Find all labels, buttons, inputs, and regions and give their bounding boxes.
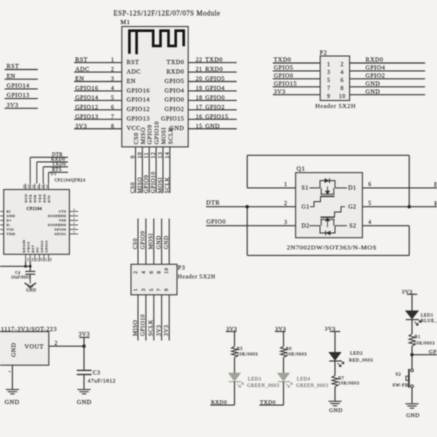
- svg-text:RXD0: RXD0: [366, 57, 384, 64]
- svg-text:10: 10: [339, 94, 346, 100]
- junction C4 b: [29, 265, 32, 268]
- wire net EN left: [5, 74, 38, 80]
- antenna: [129, 31, 183, 55]
- wire Q1 pin 1: [247, 182, 295, 188]
- wire U2 VOUT: [49, 341, 84, 347]
- wire M1 pin 10 MISO: [137, 127, 146, 193]
- ground LED2: [328, 401, 342, 414]
- wire net 3V3 left: [5, 103, 38, 109]
- wire P2 pin 10 GND: [339, 88, 425, 99]
- wire Q1 pin 5 to RST: [362, 201, 437, 208]
- svg-text:TXD0: TXD0: [274, 57, 292, 64]
- svg-text:S2: S2: [349, 223, 356, 229]
- svg-text:18: 18: [50, 257, 53, 261]
- svg-text:GPIO3: GPIO3: [45, 240, 49, 252]
- svg-text:7: 7: [111, 114, 114, 120]
- svg-text:R1: R1: [415, 334, 421, 339]
- svg-text:RXD0: RXD0: [166, 68, 184, 75]
- svg-text:RTS: RTS: [47, 195, 51, 203]
- wire M1 pin 6 GPIO12: [74, 104, 150, 113]
- module M1 body: [122, 27, 188, 147]
- wire VBUS rail: [0, 262, 30, 271]
- wire M1 pin 16 GPIO15: [161, 113, 237, 122]
- svg-text:D+: D+: [7, 219, 12, 223]
- svg-text:10: 10: [137, 152, 143, 159]
- wire M1 pin 5 GPIO14: [74, 94, 150, 103]
- svg-text:4: 4: [368, 220, 371, 226]
- svg-text:TXD0: TXD0: [205, 57, 223, 64]
- svg-text:16: 16: [196, 114, 203, 120]
- svg-text:CTS: CTS: [59, 210, 67, 214]
- wire net RST left: [5, 64, 38, 70]
- wire M1 pin 3 EN: [74, 76, 136, 85]
- power flag 3V3 R5: [226, 327, 237, 333]
- svg-text:G1: G1: [302, 204, 310, 210]
- wire M1 pin 11 GPIO9: [144, 125, 153, 194]
- svg-text:GPIO15: GPIO15: [205, 113, 228, 120]
- svg-text:18: 18: [196, 95, 203, 101]
- svg-text:2: 2: [133, 271, 139, 274]
- svg-text:GPIO12: GPIO12: [75, 104, 98, 111]
- svg-text:14: 14: [31, 257, 34, 261]
- connector P2: [315, 50, 356, 110]
- svg-text:GPIO2: GPIO2: [40, 240, 44, 252]
- svg-text:SCLK: SCLK: [149, 319, 155, 336]
- svg-text:RXD0: RXD0: [211, 400, 227, 406]
- svg-text:2: 2: [341, 62, 344, 68]
- svg-text:D-: D-: [7, 223, 12, 227]
- svg-text:2: 2: [284, 201, 287, 207]
- svg-text:8: 8: [157, 271, 163, 274]
- svg-text:GND: GND: [5, 399, 20, 406]
- svg-text:22: 22: [32, 184, 35, 188]
- wire M1 pin 4 GPIO16: [74, 85, 150, 94]
- svg-text:8: 8: [111, 124, 114, 130]
- svg-text:15: 15: [196, 124, 203, 130]
- ground C3: [77, 390, 92, 406]
- svg-text:VDD: VDD: [7, 232, 16, 236]
- Q1 pin names: [302, 186, 357, 230]
- svg-text:11: 11: [144, 152, 150, 158]
- svg-text:GPIO0: GPIO0: [274, 73, 294, 80]
- svg-text:GPIO13: GPIO13: [75, 113, 98, 120]
- capacitor C4: [11, 271, 35, 284]
- svg-text:GPIO13: GPIO13: [127, 116, 150, 123]
- power flag 3V3 R6: [275, 327, 286, 333]
- U1 bottom pins: [22, 240, 53, 262]
- wire net GPIO13 left: [5, 93, 38, 99]
- wire M1 pin 14 SCLK: [165, 127, 174, 194]
- wire P2 pin 6 GPIO2: [341, 73, 426, 84]
- wire M1 pin 21 RXD0: [166, 66, 236, 75]
- svg-text:3: 3: [327, 70, 330, 76]
- svg-text:GND: GND: [366, 80, 381, 87]
- svg-text:GPIO0: GPIO0: [206, 219, 226, 226]
- LED2 red: [329, 332, 374, 367]
- svg-text:47uF/1812: 47uF/1812: [88, 379, 116, 385]
- svg-text:GND: GND: [7, 214, 16, 218]
- wire P2 pin 1 TXD0: [273, 57, 331, 68]
- svg-text:15: 15: [36, 257, 39, 261]
- svg-text:LED2: LED2: [350, 351, 363, 356]
- junction C4 a: [24, 265, 27, 268]
- svg-text:19: 19: [46, 184, 49, 188]
- mosfet Q1a internals: [310, 178, 348, 207]
- svg-text:RST: RST: [31, 244, 35, 252]
- svg-text:20: 20: [41, 184, 44, 188]
- svg-text:EN: EN: [75, 76, 84, 83]
- wire P3 top MOSI: [149, 219, 155, 265]
- svg-text:GREEN_0603: GREEN_0603: [247, 384, 280, 389]
- wire M1 pin 15 GND: [170, 123, 237, 132]
- wire M1 pin 12 GPIO10: [151, 121, 160, 193]
- svg-text:Header 5X2H: Header 5X2H: [315, 103, 356, 110]
- svg-text:2: 2: [111, 67, 114, 73]
- wire P3 top GND: [156, 219, 162, 265]
- wire M1 pin 20 GPIO5: [165, 76, 237, 85]
- svg-text:10K/0603: 10K/0603: [237, 351, 259, 356]
- svg-text:5: 5: [111, 95, 114, 101]
- wire P3 bottom SCLK: [149, 295, 155, 341]
- resistor R6: [281, 332, 308, 358]
- svg-text:3V3: 3V3: [274, 88, 286, 95]
- svg-text:S1: S1: [302, 186, 309, 192]
- svg-text:8: 8: [341, 86, 344, 92]
- svg-text:GPIO9: GPIO9: [144, 175, 150, 194]
- resistor R7: [332, 361, 360, 401]
- svg-text:GPIO14: GPIO14: [75, 94, 98, 101]
- svg-text:S2: S2: [396, 372, 402, 377]
- wire P3 bottom MISO: [133, 295, 139, 341]
- wire P3 bottom GPIO10: [141, 295, 147, 341]
- svg-text:13: 13: [27, 257, 30, 261]
- svg-text:19: 19: [196, 86, 203, 92]
- svg-text:3V3: 3V3: [156, 325, 162, 336]
- wire U2 GND pin: [9, 365, 13, 389]
- svg-text:RST: RST: [7, 64, 20, 70]
- svg-text:Q1: Q1: [297, 165, 306, 172]
- svg-text:CP2104: CP2104: [27, 207, 43, 211]
- LED3 (grey): [228, 358, 279, 390]
- svg-text:4: 4: [111, 86, 114, 92]
- svg-text:GPIO15: GPIO15: [161, 116, 184, 123]
- svg-text:G2: G2: [348, 204, 356, 210]
- junction DTR: [246, 205, 249, 208]
- svg-text:SUSPEND: SUSPEND: [48, 223, 67, 227]
- wire P3 top GPIO9: [141, 219, 147, 265]
- svg-text:GND: GND: [77, 399, 92, 406]
- svg-text:GND: GND: [366, 88, 381, 95]
- LED1 blue: [405, 294, 437, 325]
- module M1 refdes: [121, 19, 131, 26]
- svg-text:CS0: CS0: [131, 182, 137, 193]
- wire P3 bottom 3V3: [164, 295, 170, 341]
- svg-text:GPIO0: GPIO0: [54, 228, 66, 232]
- ground U2: [5, 390, 20, 406]
- svg-text:7: 7: [327, 86, 330, 92]
- svg-text:3V3: 3V3: [164, 325, 170, 336]
- svg-text:C4: C4: [15, 271, 20, 275]
- module M1 title: [114, 11, 221, 18]
- svg-text:5: 5: [149, 288, 155, 291]
- svg-text:GPIO9: GPIO9: [141, 231, 147, 250]
- mosfet Q1b internals: [310, 207, 348, 236]
- wire P2 pin 3 GPIO5: [273, 65, 331, 76]
- svg-text:3V3: 3V3: [7, 103, 19, 109]
- svg-text:GPIO1: GPIO1: [54, 232, 66, 236]
- svg-text:3: 3: [141, 288, 147, 291]
- LED4 (grey): [277, 358, 328, 389]
- wire M1 pin 1 RST: [74, 57, 139, 66]
- svg-text:6: 6: [111, 105, 114, 111]
- svg-text:GPIO4: GPIO4: [165, 87, 185, 94]
- svg-text:6: 6: [341, 78, 344, 84]
- svg-text:TXD0: TXD0: [167, 59, 185, 66]
- svg-text:ADC: ADC: [127, 68, 141, 75]
- power flag 3V3 LED1: [402, 289, 417, 295]
- svg-text:EN: EN: [7, 74, 16, 80]
- svg-text:6: 6: [368, 182, 371, 188]
- svg-text:3V3: 3V3: [75, 123, 87, 130]
- switch S2: [393, 355, 414, 404]
- svg-text:23: 23: [28, 184, 31, 188]
- regulator U2 AMS1117: [0, 326, 57, 365]
- U1 right pins: [48, 208, 78, 236]
- svg-text:R6: R6: [286, 346, 292, 351]
- svg-text:GPIO10: GPIO10: [151, 171, 157, 193]
- svg-text:12: 12: [151, 152, 157, 159]
- svg-text:GPIO5: GPIO5: [165, 78, 185, 85]
- wire P2 pin 7 GPIO15: [273, 80, 331, 91]
- svg-text:24: 24: [23, 184, 26, 188]
- wire DTR to Q1 pin 2: [206, 200, 296, 207]
- wire M1 pin 18 GPIO0: [165, 94, 237, 103]
- svg-text:GPIO13: GPIO13: [7, 93, 30, 99]
- svg-text:Header 5X2H: Header 5X2H: [178, 275, 216, 281]
- svg-text:GPIO4: GPIO4: [366, 65, 386, 72]
- wire P2 pin 8 GND: [341, 80, 426, 91]
- svg-text:VBUS: VBUS: [26, 241, 30, 252]
- svg-text:GREEN_0603: GREEN_0603: [296, 384, 329, 389]
- svg-text:GPIO14: GPIO14: [127, 97, 150, 104]
- svg-text:6: 6: [149, 271, 155, 274]
- svg-text:VPP: VPP: [59, 219, 67, 223]
- svg-text:14: 14: [165, 152, 171, 159]
- svg-text:DTR: DTR: [206, 200, 220, 207]
- svg-text:GND: GND: [164, 235, 170, 249]
- svg-text:MOSI: MOSI: [158, 177, 164, 193]
- svg-text:DTR: DTR: [29, 194, 33, 203]
- wire U1 RXD0: [37, 158, 68, 184]
- power flag 3V3 LED2: [325, 327, 340, 333]
- wire M1 pin 13 MOSI: [158, 127, 167, 193]
- svg-text:TXD0: TXD0: [52, 163, 66, 168]
- junction RST: [408, 205, 411, 208]
- svg-text:GPIO5: GPIO5: [274, 65, 294, 72]
- svg-text:VOUT: VOUT: [25, 344, 44, 351]
- svg-text:RST: RST: [127, 59, 140, 66]
- svg-text:GPIO0: GPIO0: [429, 349, 437, 355]
- wire GPIO0 to Q1 pin 3: [206, 219, 296, 226]
- svg-text:VIO: VIO: [7, 228, 15, 232]
- svg-text:GPIO4: GPIO4: [205, 85, 225, 92]
- svg-text:9: 9: [164, 288, 170, 291]
- svg-text:ESP-12S/12F/12E/07/07S Module: ESP-12S/12F/12E/07/07S Module: [114, 11, 221, 18]
- svg-text:MISO: MISO: [137, 177, 143, 193]
- svg-text:GPIO0: GPIO0: [205, 94, 225, 101]
- svg-text:GPIO2: GPIO2: [165, 106, 185, 113]
- svg-text:1: 1: [284, 182, 287, 188]
- svg-text:CP2104QFN24: CP2104QFN24: [55, 178, 86, 183]
- wire U1 RTS: [49, 168, 69, 183]
- svg-text:1: 1: [327, 62, 330, 68]
- svg-text:M1: M1: [121, 19, 131, 26]
- svg-text:GPIO2: GPIO2: [205, 104, 225, 111]
- svg-text:9: 9: [131, 155, 137, 158]
- svg-text:10K/0603: 10K/0603: [286, 351, 308, 356]
- svg-text:R5: R5: [237, 346, 243, 351]
- ground arrow C4: [25, 283, 37, 293]
- svg-text:1: 1: [111, 58, 114, 64]
- svg-text:BLUE_0603: BLUE_0603: [421, 318, 437, 323]
- U1 top pins: [23, 184, 51, 203]
- wire P3 top CS0: [133, 219, 139, 265]
- svg-text:5: 5: [327, 78, 330, 84]
- svg-text:RED_0603: RED_0603: [349, 358, 374, 363]
- junction 3V3: [82, 345, 85, 348]
- wire P2 pin 9 3V3: [273, 88, 331, 99]
- wire M1 pin 7 GPIO13: [74, 113, 150, 122]
- svg-text:GPIO0: GPIO0: [165, 97, 185, 104]
- svg-text:RST: RST: [75, 57, 88, 64]
- svg-text:4: 4: [341, 70, 344, 76]
- svg-text:EN: EN: [127, 78, 136, 85]
- svg-text:DSR: DSR: [33, 194, 37, 202]
- wire P2 pin 5 GPIO0: [273, 73, 331, 84]
- svg-text:10uF/0603: 10uF/0603: [11, 276, 31, 280]
- U1 labels: [51, 171, 86, 183]
- svg-text:9: 9: [327, 94, 330, 100]
- svg-text:GPIO16: GPIO16: [127, 87, 150, 94]
- ground S2: [405, 404, 419, 419]
- svg-text:7: 7: [157, 288, 163, 291]
- wire M1 pin 9 CS0: [131, 132, 140, 193]
- wire Q1 pin 4: [362, 220, 409, 226]
- svg-text:RXD: RXD: [42, 194, 46, 203]
- svg-text:SCLK: SCLK: [167, 127, 174, 145]
- svg-text:17: 17: [196, 105, 203, 111]
- resistor R1: [409, 320, 435, 355]
- svg-text:REGIN: REGIN: [22, 240, 26, 253]
- svg-text:DCD: DCD: [24, 194, 28, 203]
- capacitor C3: [77, 346, 116, 389]
- svg-text:4: 4: [141, 271, 147, 274]
- wire M1 pin 19 GPIO4: [165, 85, 237, 94]
- connector P3: [131, 264, 216, 295]
- svg-text:SUSPEND: SUSPEND: [48, 214, 67, 218]
- svg-text:CS0: CS0: [133, 238, 139, 249]
- svg-text:C3: C3: [93, 370, 101, 376]
- svg-text:VCC: VCC: [127, 125, 141, 132]
- svg-text:LED4: LED4: [297, 377, 311, 382]
- svg-text:D2: D2: [302, 223, 310, 229]
- transistor Q1: [287, 165, 377, 251]
- svg-text:TXD: TXD: [38, 194, 42, 203]
- wire net GPIO14 left: [5, 84, 38, 90]
- svg-text:LED1: LED1: [421, 312, 434, 317]
- wire U1 DTR: [30, 153, 68, 183]
- wire net GPIO0 right: [412, 349, 437, 355]
- svg-text:GPIO10: GPIO10: [141, 314, 147, 336]
- svg-text:20: 20: [196, 77, 203, 83]
- svg-text:RXD0: RXD0: [205, 66, 223, 73]
- svg-text:GPIO5: GPIO5: [205, 76, 225, 83]
- svg-text:MOSI: MOSI: [149, 233, 155, 249]
- svg-text:2: 2: [55, 341, 58, 347]
- svg-text:10: 10: [164, 268, 170, 274]
- svg-text:P3: P3: [178, 264, 185, 271]
- svg-text:3: 3: [111, 77, 114, 83]
- wire P2 pin 4 GPIO4: [341, 65, 426, 76]
- svg-text:RTS: RTS: [52, 168, 62, 173]
- wire M1 pin 22 TXD0: [167, 57, 237, 66]
- svg-text:1: 1: [133, 288, 139, 291]
- wire P2 pin 2 RXD0: [341, 57, 426, 68]
- svg-text:16: 16: [41, 257, 44, 261]
- svg-text:3: 3: [284, 220, 287, 226]
- wire M1 pin 2 ADC: [74, 66, 141, 75]
- svg-text:GPIO16: GPIO16: [75, 85, 98, 92]
- svg-text:21: 21: [37, 184, 40, 188]
- svg-text:GND: GND: [329, 408, 343, 414]
- wire Q1 bottom rail: [247, 207, 409, 256]
- svg-text:MISO: MISO: [133, 320, 139, 336]
- svg-text:NC: NC: [36, 247, 40, 253]
- svg-text:10K/0603: 10K/0603: [414, 340, 436, 345]
- svg-text:GND: GND: [12, 342, 18, 357]
- svg-text:TXD0: TXD0: [260, 400, 276, 406]
- U1 left pins: [0, 210, 15, 237]
- svg-text:5: 5: [368, 201, 371, 207]
- svg-text:10K/0603: 10K/0603: [338, 380, 360, 385]
- svg-text:22: 22: [196, 58, 203, 64]
- wire M1 pin 8 3V3: [74, 123, 141, 132]
- svg-text:13: 13: [158, 152, 164, 159]
- svg-text:D1: D1: [348, 186, 356, 192]
- junction GPIO0: [410, 353, 413, 356]
- resistor R5: [232, 332, 259, 358]
- svg-text:GPIO14: GPIO14: [7, 84, 30, 90]
- svg-text:21: 21: [196, 67, 203, 73]
- svg-text:GND: GND: [205, 123, 220, 130]
- svg-text:GND: GND: [26, 288, 36, 293]
- wire net TXD0 bottom: [259, 382, 283, 406]
- svg-text:GND: GND: [406, 413, 420, 419]
- wire U1 TXD0: [43, 163, 68, 184]
- wire Q1 pin 6 to EN: [362, 182, 437, 189]
- svg-text:SW-PB: SW-PB: [393, 383, 409, 388]
- wire P3 top GND: [164, 219, 170, 265]
- wire Q1 top rail: [247, 155, 409, 206]
- svg-text:LED3: LED3: [248, 378, 262, 383]
- svg-text:GPIO2: GPIO2: [366, 73, 386, 80]
- svg-text:GPIO12: GPIO12: [127, 106, 150, 113]
- U1 body: [4, 190, 70, 255]
- svg-text:2N7002DW/SOT363/N-MOS: 2N7002DW/SOT363/N-MOS: [287, 245, 377, 252]
- wire P3 bottom 3V3: [156, 295, 162, 341]
- svg-text:SCLK: SCLK: [165, 176, 171, 193]
- wire M1 pin 17 GPIO2: [165, 104, 237, 113]
